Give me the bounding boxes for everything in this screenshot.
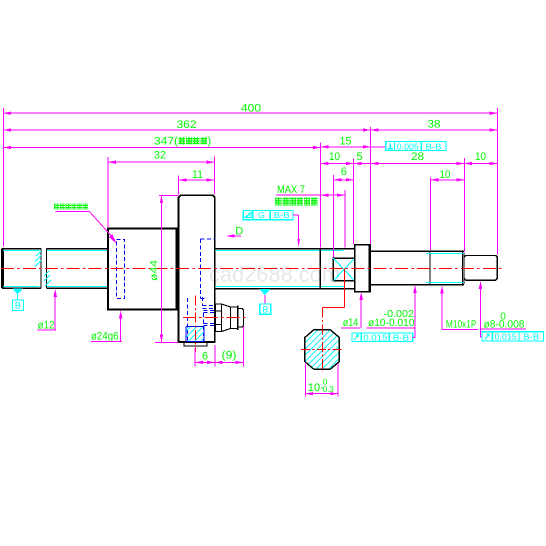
svg-text:15: 15: [340, 135, 352, 147]
svg-text:28: 28: [411, 151, 424, 163]
svg-text:D: D: [235, 226, 243, 238]
wrench flats box: [333, 258, 354, 281]
dimension 10 M10 length: [431, 169, 465, 181]
centerline grease nipple axis: [183, 317, 247, 319]
wrench flats X mark: [333, 258, 354, 281]
flange bottom boss: [184, 342, 207, 346]
centerline flange cross hole: [195, 296, 197, 353]
dimension 32: [108, 150, 215, 163]
ball screw thread section: [215, 249, 321, 289]
dimension dia44: [149, 195, 179, 342]
extension line x344.8: [344, 190, 346, 247]
thread minor lines segment 2: [47, 251, 108, 287]
label dia24g6: [91, 311, 123, 343]
frame perpendicularity 0.005 B-B: [371, 141, 446, 151]
dimension 400: [3, 102, 497, 114]
svg-text:M10x1P: M10x1P: [446, 318, 477, 330]
svg-text:G: G: [258, 210, 265, 220]
svg-text:): ): [208, 135, 212, 147]
shaft dia8 end section: [464, 256, 497, 281]
svg-text:0.3: 0.3: [323, 384, 334, 394]
dimension MAX 7 incomplete thread: [276, 184, 345, 196]
frame runout 0.015 B-B left: [352, 332, 413, 342]
svg-text:(9): (9): [222, 350, 237, 362]
svg-text:ø14: ø14: [343, 317, 359, 329]
extension line left datum end: [2, 108, 4, 247]
extension line x333.7: [333, 175, 335, 258]
thread minor lines main: [215, 251, 344, 287]
svg-text:B-B: B-B: [523, 332, 539, 342]
label dia14: [341, 292, 363, 329]
svg-text:10-: 10-: [308, 382, 324, 394]
dimension 28: [371, 151, 465, 164]
extension line x214.5: [214, 157, 216, 195]
dimension 10 right end: [464, 151, 497, 163]
svg-text:362: 362: [177, 119, 197, 131]
extension line x108: [107, 157, 109, 227]
plain shaft after thread: [320, 249, 354, 289]
centerline detail view horizontal: [301, 349, 344, 351]
leader slope frame to thread: [293, 215, 300, 247]
svg-text:ø44: ø44: [149, 259, 160, 281]
dimension (9) nipple: [215, 326, 243, 367]
svg-text:400: 400: [241, 102, 261, 114]
extension line x464.3: [463, 158, 465, 252]
dimension 347 effective thread: [3, 135, 320, 147]
svg-text:-0.002: -0.002: [384, 309, 415, 320]
note incomplete thread text: [275, 197, 317, 205]
svg-text:0.015: 0.015: [363, 332, 387, 342]
dimension 10 thread runout: [321, 151, 354, 164]
svg-text:10: 10: [475, 151, 486, 163]
svg-text:5: 5: [356, 151, 362, 163]
datum B left: [12, 288, 23, 310]
extension line x320.6: [320, 143, 322, 248]
dimension 362: [3, 119, 370, 131]
centerline main shaft: [1, 268, 504, 270]
svg-text:32: 32: [154, 150, 166, 162]
svg-text:B-B: B-B: [426, 141, 442, 151]
flange dia44: [179, 195, 215, 342]
extension line x370.6: [370, 127, 372, 244]
hidden hole in journal block: [117, 240, 125, 299]
thread end step: [319, 249, 321, 289]
view arrow D: [226, 226, 243, 238]
extension line x430.5: [430, 178, 432, 251]
label dia12: [37, 289, 57, 332]
shaft M10 thread section: [430, 251, 464, 284]
frame slope G B-B: [243, 210, 293, 220]
shaft second thread segment: [47, 249, 109, 289]
svg-text:347(: 347(: [154, 135, 178, 147]
datum B right: [260, 289, 271, 315]
dimension 38: [371, 118, 498, 130]
section trace from flats to detail view: [323, 269, 345, 373]
dimension 15: [321, 135, 371, 147]
broken-out section hatch at grease hole: [186, 326, 205, 342]
svg-text:6: 6: [202, 350, 208, 362]
leader for chamfer note: [55, 212, 116, 244]
svg-text:10: 10: [329, 151, 340, 163]
note chamfer both ends: [54, 204, 88, 210]
extension line x353.6: [353, 159, 355, 245]
svg-text:0.015: 0.015: [495, 332, 517, 342]
grease nipple: [216, 304, 244, 332]
extension line x178.6: [178, 176, 180, 195]
dimension 5: [354, 151, 376, 164]
svg-text:0: 0: [500, 311, 506, 322]
dimension 6 flats: [334, 166, 354, 180]
detail section octagon: [305, 330, 340, 370]
dimension 10 across flats: [305, 364, 338, 397]
svg-text:0.005: 0.005: [397, 141, 419, 151]
svg-text:B: B: [15, 301, 21, 311]
dimension 11: [179, 169, 215, 181]
label dia10 tolerance: [367, 285, 417, 338]
M10 thread minor lines: [426, 254, 463, 283]
extension line right shaft end: [496, 108, 498, 255]
collar: [355, 245, 370, 292]
svg-text:ø24g6: ø24g6: [91, 331, 119, 343]
break hatch segment 2 left: [44, 271, 51, 286]
svg-text:6: 6: [341, 166, 347, 178]
frame runout 0.015 B-B right: [482, 332, 544, 342]
shaft left stub segment: [2, 249, 41, 289]
journal block dia24: [108, 229, 177, 310]
svg-text:B-B: B-B: [274, 210, 290, 220]
flange hidden bore: [201, 239, 215, 309]
svg-text:B-B: B-B: [393, 332, 409, 342]
svg-text:MAX 7: MAX 7: [277, 184, 305, 196]
flange hidden grease passages: [188, 298, 215, 341]
svg-text:38: 38: [428, 118, 441, 130]
thread minor lines stub: [3, 251, 40, 287]
label M10x1P: [440, 286, 478, 331]
label dia8 tolerance: [479, 281, 526, 337]
svg-text:10: 10: [440, 169, 451, 181]
break hatch stub right: [35, 251, 41, 267]
svg-text:11: 11: [192, 169, 203, 181]
svg-text:B: B: [262, 305, 268, 315]
dimension 6 grease hole: [195, 345, 215, 367]
shaft dia10 section: [370, 251, 430, 284]
